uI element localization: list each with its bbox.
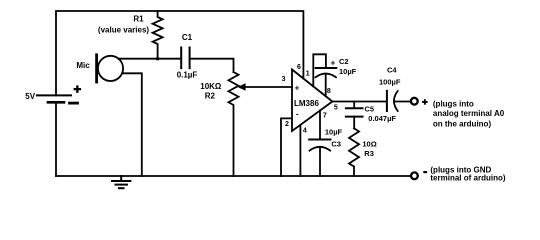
svg-text:LM386: LM386	[294, 99, 319, 108]
wire C4 to output terminal	[394, 101, 410, 103]
wire C1 to R2	[190, 59, 234, 72]
svg-text:8: 8	[327, 88, 331, 95]
resistor R1	[153, 11, 163, 59]
terminal GND output	[411, 172, 418, 179]
svg-text:R3: R3	[364, 149, 374, 158]
svg-text:10KΩ: 10KΩ	[200, 82, 222, 91]
svg-text:1: 1	[306, 71, 310, 78]
svg-text:C1: C1	[182, 33, 193, 42]
label battery plus	[74, 85, 82, 93]
wire pin 2 to bottom rail	[281, 118, 292, 176]
svg-text:+: +	[295, 83, 300, 92]
svg-text:R2: R2	[205, 92, 216, 101]
svg-text:terminal of arduino): terminal of arduino)	[430, 174, 505, 183]
wire mic to C1	[119, 58, 181, 60]
svg-text:7: 7	[323, 113, 327, 120]
svg-text:100µF: 100µF	[379, 78, 401, 87]
wire C5 to R3	[353, 117, 355, 129]
wire mic to bottom rail	[122, 73, 142, 176]
wire C2 to pin 8	[325, 74, 327, 96]
capacitor C2	[316, 67, 337, 69]
wire pin 7 to C3	[319, 111, 321, 139]
svg-text:(plugs into: (plugs into	[433, 100, 474, 109]
capacitor C4	[386, 91, 388, 111]
svg-text:10Ω: 10Ω	[362, 139, 376, 148]
label terminal GND minus	[423, 171, 427, 173]
svg-text:R1: R1	[133, 15, 144, 24]
pin numbers	[282, 64, 338, 135]
resistor R3	[349, 128, 359, 176]
label terminal A0 plus	[422, 99, 506, 182]
svg-text:0.047µF: 0.047µF	[368, 114, 396, 123]
svg-text:-: -	[296, 109, 299, 118]
svg-text:C4: C4	[387, 66, 397, 75]
potentiometer R2	[229, 72, 239, 176]
svg-text:on the arduino): on the arduino)	[433, 120, 492, 129]
svg-text:+: +	[331, 59, 336, 68]
svg-text:C5: C5	[365, 104, 375, 113]
terminal A0 output	[411, 98, 418, 105]
R2 wiper arrow / wire to pin 3	[244, 86, 292, 88]
wire pin 5 output	[332, 101, 386, 103]
svg-text:10µF: 10µF	[339, 67, 357, 76]
wire battery to bottom rail	[55, 102, 57, 176]
ground	[112, 176, 130, 188]
wire output junction to C5	[353, 102, 355, 109]
svg-text:5V: 5V	[25, 92, 35, 101]
svg-text:6: 6	[297, 64, 301, 71]
wire top rail	[56, 11, 303, 95]
label battery minus	[70, 102, 78, 105]
svg-text:(value varies): (value varies)	[98, 26, 149, 35]
capacitor C3	[309, 139, 330, 141]
svg-text:5: 5	[334, 105, 338, 112]
wire bottom rail	[56, 175, 410, 177]
wire pin 1 jumper to C2	[313, 54, 326, 86]
wire C3 to bottom rail	[319, 147, 321, 176]
svg-text:C3: C3	[331, 139, 341, 148]
svg-text:C2: C2	[339, 57, 349, 66]
op-amp U1 LM386	[292, 70, 332, 132]
svg-text:0.1µF: 0.1µF	[177, 71, 198, 80]
svg-text:2: 2	[285, 121, 289, 128]
battery 5V	[37, 94, 71, 96]
capacitor C1	[180, 48, 182, 69]
capacitor C5	[346, 107, 363, 109]
wire pin 4 to bottom rail	[299, 125, 301, 176]
svg-text:4: 4	[303, 128, 307, 135]
svg-text:10µF: 10µF	[325, 128, 343, 137]
svg-text:3: 3	[282, 76, 286, 83]
label R1	[25, 15, 319, 119]
svg-text:Mic: Mic	[76, 61, 90, 70]
microphone Mic	[98, 56, 123, 81]
node R1-mic junction	[156, 57, 159, 60]
svg-text:analog terminal A0: analog terminal A0	[433, 109, 505, 118]
